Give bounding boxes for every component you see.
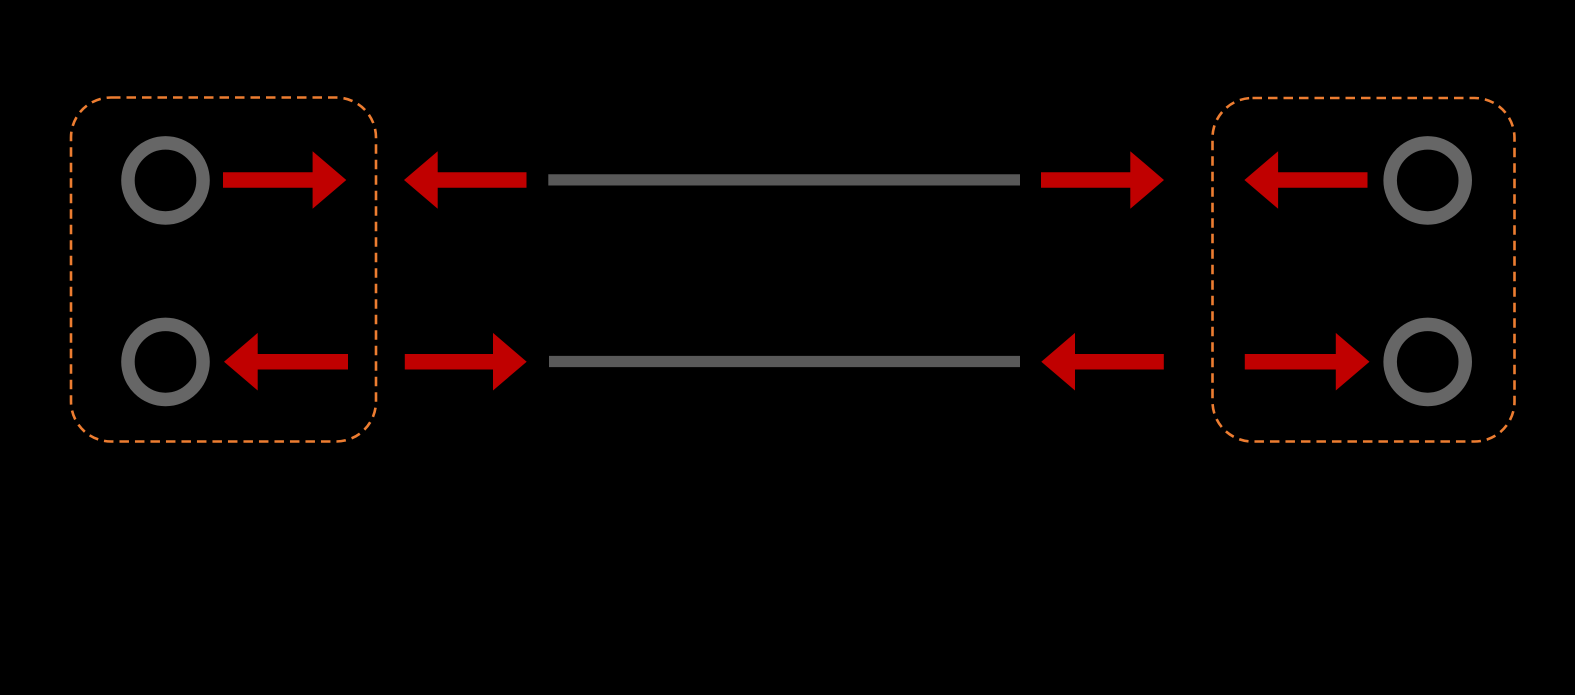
arrow top-left inward (left-pointing) (404, 151, 527, 209)
bottom wire (549, 356, 1020, 367)
arrow bottom-right inward (left-pointing) (1041, 333, 1164, 391)
top wire (548, 174, 1020, 185)
left device box (71, 98, 376, 442)
right device box (1213, 98, 1515, 442)
arrow top-right outward (right-pointing) (1041, 151, 1164, 209)
arrow left-bottom in (left-pointing) (224, 333, 348, 391)
arrow bottom-left outward (right-pointing) (405, 333, 527, 391)
arrow left-top out (right-pointing) (223, 151, 346, 209)
arrow right-bottom out (right-pointing) (1245, 333, 1370, 391)
right TX port circle (1390, 324, 1465, 399)
left RX port circle (128, 324, 203, 399)
right RX port circle (1390, 143, 1465, 218)
arrow right-top in (left-pointing) (1244, 151, 1367, 209)
left TX port circle (128, 143, 203, 218)
